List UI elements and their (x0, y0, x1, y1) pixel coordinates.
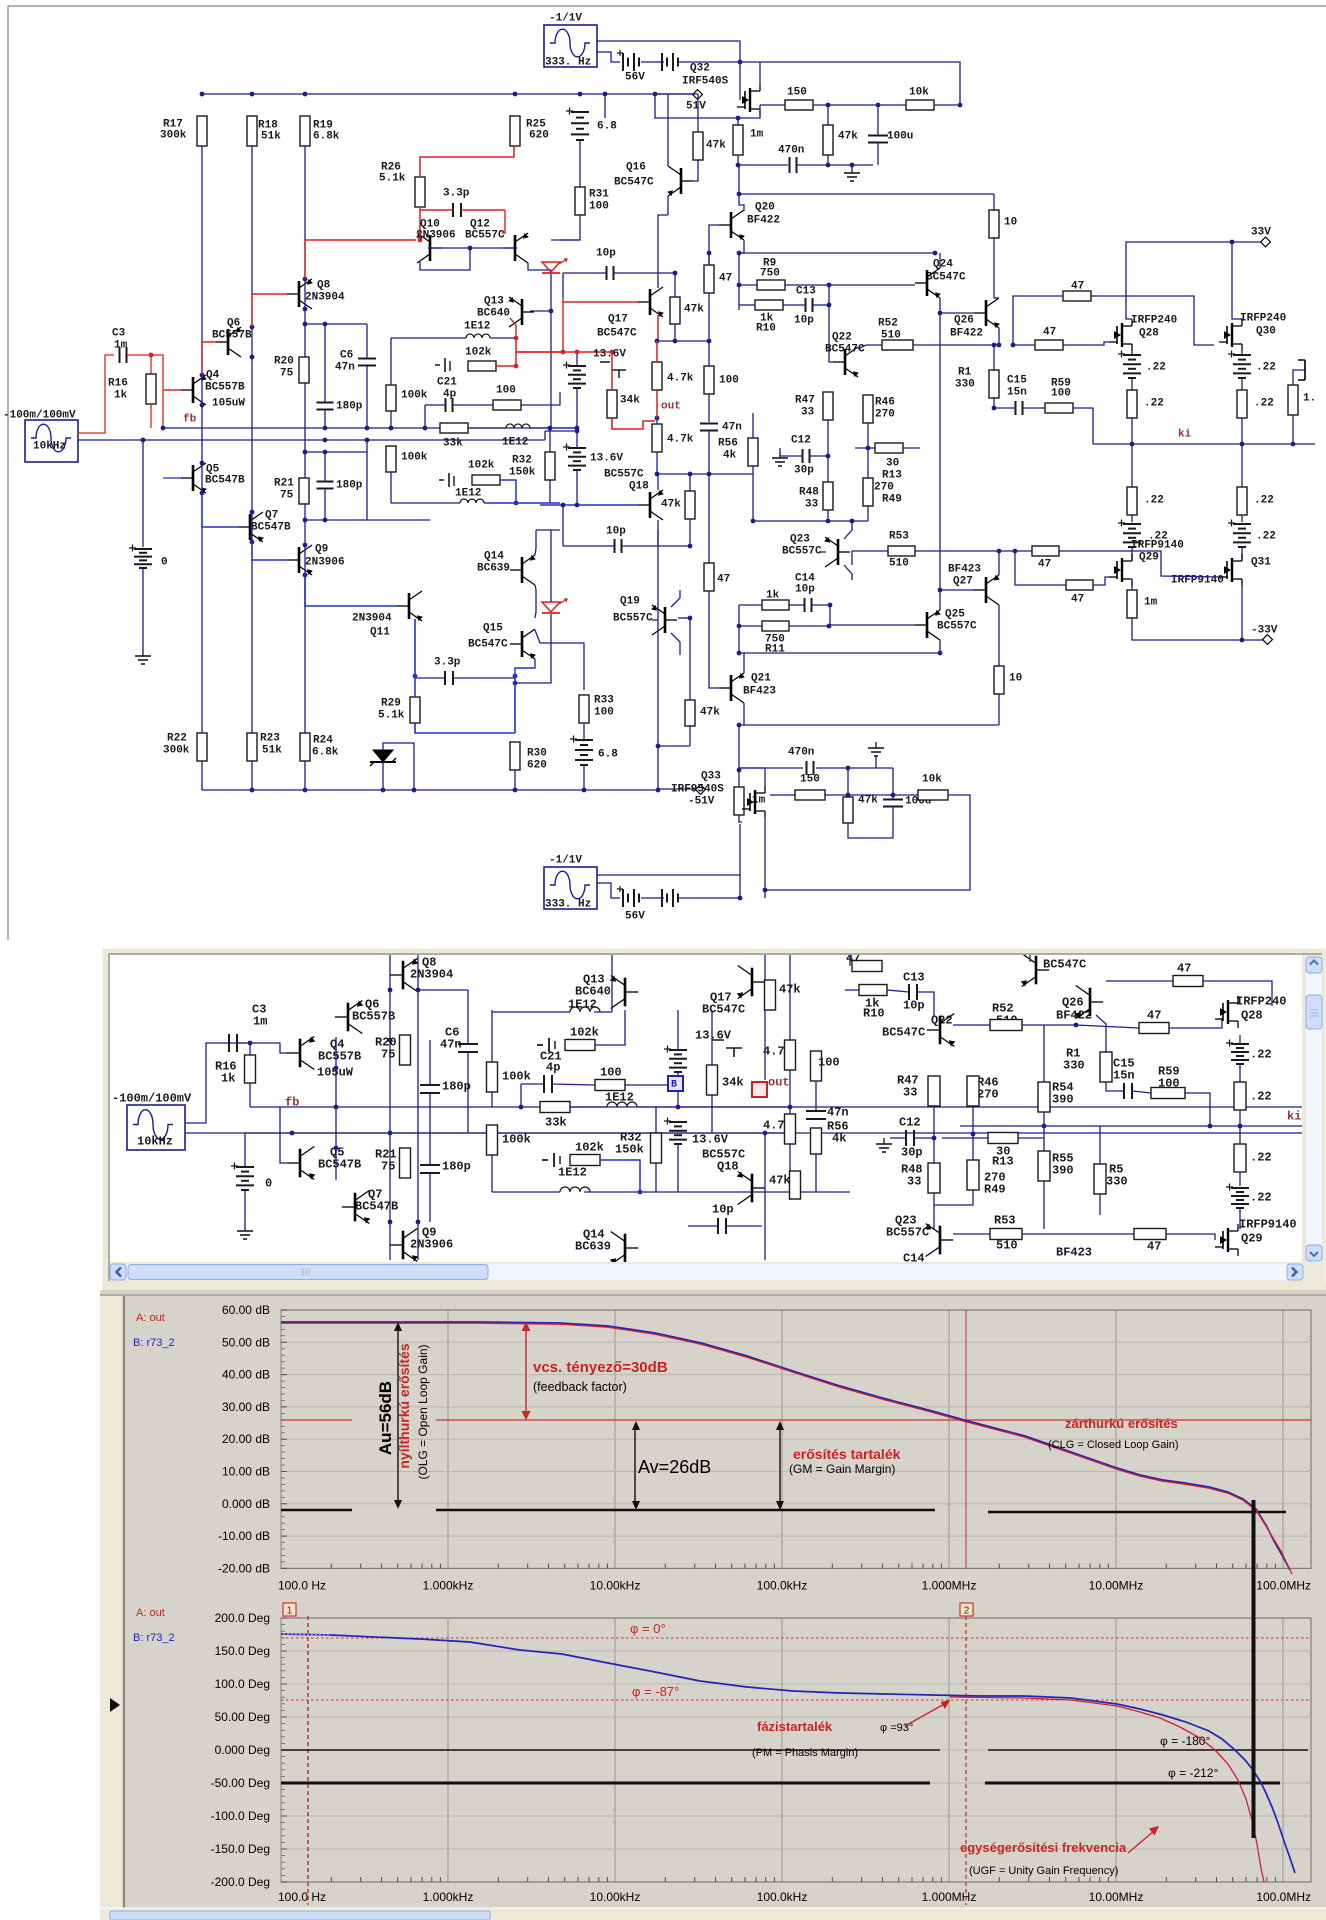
PM red arrow (905, 1703, 946, 1726)
w node q6 d (388, 1220, 393, 1225)
node rail 6.8 (578, 92, 583, 97)
w transistor Q13 (624, 978, 627, 1007)
wire 100mid bot (708, 394, 710, 422)
w battery 0 (236, 1166, 254, 1168)
svg-text:Q7: Q7 (265, 510, 278, 522)
svg-text:Q13: Q13 (484, 296, 504, 308)
wire VG1 lower out (78, 439, 163, 441)
node rail R17 (200, 92, 205, 97)
wire load dn (1292, 415, 1294, 444)
node 848 768 (846, 766, 851, 771)
node fb (161, 426, 166, 431)
node red 420 240 (418, 238, 423, 243)
node 305 c (303, 543, 308, 548)
w wire row 990 (418, 989, 468, 991)
resistor 10k (bot) (918, 790, 948, 800)
UGF red arrow (1128, 1831, 1154, 1853)
svg-text:10kHz: 10kHz (33, 441, 66, 453)
capacitor 180p (upper) (317, 402, 334, 404)
wire 150-10k (813, 104, 906, 106)
resistor 1m (q29) (1127, 590, 1137, 618)
w wire 180p dn b (429, 1173, 431, 1222)
w battery .22 q28 (1231, 1043, 1249, 1045)
wire 180p upper col (324, 324, 326, 402)
w resistor 33k (540, 1102, 570, 1113)
transistor Q4 BC557B (192, 377, 195, 403)
svg-text:R32: R32 (512, 455, 532, 467)
phase hgrid (281, 1650, 1311, 1652)
w resistor R32 150k (651, 1133, 662, 1163)
wire 1m col (737, 118, 739, 125)
0dB black line right (988, 1511, 1286, 1514)
svg-text:0: 0 (265, 1177, 272, 1191)
svg-text:IRFP9140: IRFP9140 (1239, 1218, 1297, 1232)
w wire bus2 (245, 1132, 790, 1134)
svg-text:IRF540S: IRF540S (682, 76, 729, 88)
w transistor Q24 (1035, 956, 1038, 985)
node 383 790 (381, 788, 386, 793)
wire q16 rail (655, 93, 668, 95)
wire 47kmid dn (689, 519, 691, 546)
svg-text:R31: R31 (589, 189, 609, 201)
battery .22 (q28 src) (1123, 354, 1141, 356)
svg-text:R21: R21 (274, 478, 294, 490)
wire 1E12l left (391, 502, 460, 504)
svg-text:390: 390 (1052, 1164, 1074, 1178)
node 999 551 (997, 549, 1002, 554)
w resistor 47 tr (1173, 976, 1203, 987)
node C6 bus (365, 426, 370, 431)
w resistor 34k (707, 1065, 718, 1095)
wire 1m gate (739, 815, 742, 822)
mosfet Q28 IRFP240 (1121, 323, 1123, 347)
node 414 790 (412, 788, 417, 793)
wire ki line (1093, 443, 1315, 445)
node 252 a (250, 325, 255, 330)
node bot 305 (303, 788, 308, 793)
svg-text:IRFP240: IRFP240 (1240, 313, 1286, 325)
w resistor R54 (1038, 1082, 1050, 1112)
wire led2 dn (515, 614, 551, 683)
wire load up (1293, 370, 1305, 385)
svg-text:10k: 10k (909, 87, 929, 99)
wire q24 e dn (939, 298, 941, 313)
svg-text:BC557B: BC557B (318, 1050, 361, 1064)
w capacitor C13 (908, 984, 910, 1000)
w wire batt up (244, 1133, 246, 1167)
svg-text:100.0kHz: 100.0kHz (757, 1578, 808, 1592)
node 829 625 (827, 624, 832, 629)
svg-text:0.000 Deg: 0.000 Deg (215, 1743, 270, 1757)
w wire 30 r (1018, 1137, 1044, 1139)
wire q19 e up (671, 590, 680, 607)
node Q32 gate bus (738, 60, 743, 65)
phase y ticks (281, 1618, 287, 1882)
wire zener dn (382, 762, 384, 790)
svg-text:Q23: Q23 (790, 534, 810, 546)
w wire ki line (960, 1125, 1302, 1127)
svg-text:47: 47 (1177, 962, 1191, 976)
node 1015 551 (1013, 549, 1018, 554)
resistor 4.7k (upper) (652, 362, 662, 390)
w node c21 (519, 1105, 524, 1110)
wire q30 col b (1241, 378, 1243, 390)
svg-text:47k: 47k (700, 707, 720, 719)
wire q14-q15 join (535, 585, 536, 618)
resistor R49 270 (863, 478, 873, 506)
svg-text:270: 270 (874, 482, 894, 494)
wire q33 drain (764, 818, 766, 890)
wire 47g30 left (1013, 344, 1035, 346)
svg-text:BC547C: BC547C (597, 328, 637, 340)
svg-text:10kHz: 10kHz (137, 1135, 173, 1149)
ground (top bias) (851, 167, 853, 173)
wire R56 up (752, 413, 754, 438)
capacitor C3 (119, 347, 121, 363)
svg-text:10p: 10p (596, 248, 616, 260)
svg-text:Q22: Q22 (832, 332, 852, 344)
svg-text:Q26: Q26 (1062, 996, 1084, 1010)
w node 640 1192 (638, 1190, 643, 1195)
node 999 345b (997, 343, 1002, 348)
node 739 725 (737, 723, 742, 728)
wire q29 1m (1131, 584, 1133, 590)
svg-text:6.8k: 6.8k (312, 747, 339, 759)
wire q26 c up (994, 297, 999, 299)
wire Q32 src row (760, 104, 785, 106)
w capacitor 47n r (806, 1110, 826, 1112)
resistor 1m (top) (733, 125, 743, 155)
wire R16 top stub (150, 355, 152, 374)
svg-text:100.0MHz: 100.0MHz (1256, 1578, 1311, 1592)
load bracket (1298, 360, 1305, 380)
wire c12 left (779, 448, 781, 456)
w mosfet Q28 (1227, 1000, 1229, 1024)
wire c21 up (424, 405, 426, 428)
wire VG3 top (597, 883, 620, 898)
node red q13 e (514, 336, 519, 341)
svg-text:3.3p: 3.3p (434, 657, 461, 669)
svg-text:620: 620 (529, 130, 549, 142)
capacitor C13 (805, 298, 807, 312)
node 202 b (200, 403, 205, 408)
wire 551 to Q13 (530, 310, 551, 312)
w resistor 4.7k dn (785, 1114, 796, 1144)
svg-text:30p: 30p (794, 465, 814, 477)
wire q18 c dn (657, 520, 659, 546)
node 739 626 (737, 624, 742, 629)
resistor R9 750 (757, 280, 785, 290)
w transistor Q8 (402, 961, 405, 990)
w resistor 47 mr (1139, 1023, 1169, 1034)
w resistor R49 (967, 1160, 979, 1190)
hscroll thumb (128, 1265, 488, 1280)
node 33k left (423, 426, 428, 431)
wire 100k dn (390, 411, 392, 428)
wire c21 left (425, 404, 445, 406)
svg-text:R13: R13 (882, 470, 902, 482)
w wire r54 (1043, 1025, 1045, 1082)
w marker B (668, 1076, 683, 1091)
svg-text:BC557C: BC557C (886, 1226, 929, 1240)
svg-text:Q9: Q9 (315, 544, 328, 556)
svg-text:47: 47 (719, 273, 732, 285)
capacitor 10p (q18) (614, 539, 616, 553)
resistor R16 (146, 374, 156, 404)
w node q6 a (388, 988, 393, 993)
capacitor stub upper (435, 358, 445, 372)
node 515 683 (513, 681, 518, 686)
wire 1E12l right (484, 502, 560, 504)
wire VG2 to 56V battery (597, 52, 620, 62)
svg-text:IRF9540S: IRF9540S (671, 784, 724, 796)
plot panel background (100, 1290, 1326, 1908)
svg-text:BF423: BF423 (948, 564, 981, 576)
resistor R21 (299, 478, 309, 504)
node 830 605 (828, 603, 833, 608)
w node 790 1107 (788, 1105, 793, 1110)
svg-text:Q6: Q6 (227, 318, 240, 330)
svg-text:15n: 15n (1113, 1069, 1135, 1083)
resistor R48 33 (823, 482, 833, 510)
svg-text:47: 47 (1038, 559, 1051, 571)
svg-text:1m: 1m (253, 1015, 267, 1029)
resistor 1m (bot) (734, 787, 744, 815)
wire row 505 base (540, 504, 638, 506)
svg-text:(PM = Phasis Margin): (PM = Phasis Margin) (752, 1747, 858, 1759)
wire 47g28 right (1091, 296, 1214, 345)
svg-text:5.1k: 5.1k (379, 173, 406, 185)
wire 829 col (828, 285, 830, 355)
svg-text:1k: 1k (221, 1072, 235, 1086)
svg-text:nyílthurkú erősítés: nyílthurkú erősítés (396, 1343, 412, 1468)
svg-text:1E12: 1E12 (464, 321, 490, 333)
wire 13.6l top (576, 431, 578, 448)
w wire c13 r (917, 992, 934, 1017)
svg-text:33k: 33k (443, 438, 463, 450)
svg-text:10p: 10p (712, 1203, 734, 1217)
node out (655, 416, 660, 421)
resistor 100k (upper) (386, 385, 396, 411)
resistor R59 100 (1045, 403, 1073, 413)
svg-text:BC557B: BC557B (352, 1010, 395, 1024)
node 551 311 (549, 309, 554, 314)
wire 10p2 rise (562, 505, 564, 546)
w wire c12 (890, 1137, 906, 1139)
wire base drop (420, 248, 470, 270)
svg-text:.22: .22 (1250, 1048, 1272, 1062)
resistor .22 (q28) (1127, 390, 1137, 418)
wire 68 dn (583, 765, 585, 790)
wire VG1 upper out (78, 355, 114, 433)
svg-text:100: 100 (719, 375, 739, 387)
wire 47k col (827, 105, 829, 125)
node 940 313 (938, 311, 943, 316)
wire 100u bottom (877, 143, 879, 165)
transistor Q16 BC547C (680, 168, 683, 194)
node 994 345 (992, 343, 997, 348)
capacitor C15 15n (1015, 401, 1017, 415)
wire 739 col (738, 165, 740, 194)
node 994 408 (992, 406, 997, 411)
hscroll right button (1287, 1264, 1303, 1280)
svg-text:47k: 47k (769, 1174, 791, 1188)
w resistor 4.7k up (785, 1040, 796, 1070)
w wire c6 dn (467, 1052, 469, 1133)
node rail x605 (603, 92, 608, 97)
w wire q8 col (417, 955, 419, 1260)
w wire 34k dn (711, 1095, 713, 1133)
svg-text:4.7k: 4.7k (667, 373, 694, 385)
wire chain link (678, 897, 740, 899)
resistor R20 (299, 357, 309, 383)
wire C3 to R16 node (127, 354, 151, 356)
svg-text:1E12: 1E12 (568, 998, 597, 1012)
wire 746 row (658, 745, 690, 747)
svg-text:33: 33 (805, 499, 819, 511)
svg-text:2N3906: 2N3906 (416, 230, 456, 242)
battery B2 small (661, 53, 663, 71)
node 202 c (200, 461, 205, 466)
capacitor C14 10p (804, 598, 806, 612)
w marker out (752, 1082, 767, 1097)
node 305 a (303, 277, 308, 282)
wire blue q7 down (252, 542, 287, 560)
w wire batt dn (244, 1190, 246, 1225)
svg-text:A: out: A: out (136, 1607, 165, 1619)
svg-text:BC547C: BC547C (1043, 958, 1086, 972)
w resistor R48 (928, 1163, 940, 1193)
wire C6 top (366, 324, 368, 358)
svg-text:out: out (768, 1076, 790, 1090)
wire q15 c right (535, 630, 584, 690)
svg-text:47n: 47n (722, 422, 742, 434)
wire red 3.3p right (461, 209, 505, 211)
node rail R19 (303, 92, 308, 97)
svg-text:150: 150 (787, 87, 807, 99)
wire 100k up (390, 338, 392, 385)
wire fb red link (151, 355, 163, 428)
node ki b (1240, 442, 1245, 447)
w resistor R55 (1038, 1151, 1050, 1181)
battery 13.6V lower (568, 447, 586, 449)
plot panel left margin (100, 1296, 122, 1908)
wire 100u stub (892, 768, 894, 799)
svg-text:10p: 10p (903, 999, 925, 1013)
svg-text:IRFP240: IRFP240 (1236, 995, 1286, 1009)
svg-text:-20.00 dB: -20.00 dB (218, 1561, 270, 1575)
svg-text:47k: 47k (779, 983, 801, 997)
wire 47kq17 dn (674, 324, 676, 341)
svg-text:R46: R46 (875, 397, 895, 409)
wire mid col x252 (251, 146, 253, 733)
phi=0 dotted line (281, 1637, 1311, 1639)
wire VG2 top to Q32 gate bus (597, 41, 740, 62)
resistor 47 (g31) (1066, 580, 1093, 590)
w wire r55 dn (1043, 1181, 1045, 1229)
svg-text:-150.0 Deg: -150.0 Deg (211, 1842, 270, 1856)
battery .22 (q30 src) (1233, 354, 1251, 356)
node 100k bus (389, 426, 394, 431)
w inductor 1E12 (607, 1102, 637, 1107)
svg-text:.22: .22 (1256, 362, 1276, 374)
phi=-87 dotted line (281, 1699, 1311, 1701)
wire red Q4-Q6 (163, 389, 181, 391)
svg-text:10p: 10p (794, 315, 814, 327)
zener D3 (373, 750, 393, 762)
wire 739 colb (738, 253, 740, 310)
Au arrow (397, 1329, 399, 1503)
diamond 51V (693, 90, 703, 100)
svg-text:333. Hz: 333. Hz (545, 899, 591, 911)
w resistor 100 (595, 1080, 625, 1091)
resistor 47 (mid) (704, 563, 714, 591)
node mid 105 (826, 103, 831, 108)
svg-text:2N3906: 2N3906 (410, 1238, 453, 1252)
svg-text:750: 750 (760, 268, 780, 280)
resistor 34k (607, 390, 617, 418)
capacitor 47n (mid) (700, 423, 718, 425)
svg-text:Q14: Q14 (484, 551, 504, 563)
w node q6 c (388, 1131, 393, 1136)
svg-text:-33V: -33V (1251, 625, 1278, 637)
red diode D1 (upper) (542, 262, 560, 272)
wire 33V to q30 (1232, 242, 1242, 319)
w ground input (244, 1225, 246, 1231)
svg-text:C21: C21 (437, 377, 457, 389)
svg-text:2N3904: 2N3904 (305, 292, 345, 304)
phase minor ticks (331, 1877, 1275, 1882)
svg-text:100u: 100u (887, 131, 913, 143)
w wire 47br r (1166, 1234, 1215, 1240)
w node ki a (1042, 1124, 1047, 1129)
wire main bus y440 (163, 439, 545, 441)
svg-text:33k: 33k (545, 1116, 567, 1130)
svg-text:47: 47 (1071, 594, 1084, 606)
svg-text:BC557C: BC557C (782, 546, 822, 558)
svg-text:Q27: Q27 (953, 576, 973, 588)
wire q31 col b (1241, 547, 1243, 560)
wire 1E12 left (391, 337, 466, 339)
wire q30 col c (1241, 418, 1243, 487)
w battery 13.6V dn (669, 1121, 687, 1123)
node rail R25 (513, 92, 518, 97)
svg-text:Q28: Q28 (1139, 328, 1159, 340)
w wire q4q5 col (335, 1037, 337, 1180)
wire red row 352 (516, 351, 612, 353)
w resistor .22 q29 (1234, 1144, 1246, 1172)
wire R32 dn (549, 480, 551, 503)
w wire 102k dn r (600, 1160, 640, 1192)
svg-text:BC547C: BC547C (882, 1026, 925, 1040)
node 709 253 (707, 251, 712, 256)
mosfet Q33 IRF9540S (754, 790, 756, 814)
w wire c21-100 (552, 1084, 595, 1085)
svg-text:30: 30 (886, 458, 899, 470)
svg-text:ki: ki (1178, 429, 1192, 441)
wire 100u top (877, 105, 879, 135)
svg-text:47: 47 (1071, 281, 1084, 293)
resistor 750 R11 (762, 621, 789, 631)
svg-text:30p: 30p (901, 1146, 923, 1160)
wire row 725 (744, 724, 999, 726)
w wire r52 r (1022, 1024, 1076, 1026)
node 829 305 (827, 303, 832, 308)
wire 34k top red (611, 352, 613, 390)
svg-text:40.00 dB: 40.00 dB (222, 1368, 270, 1382)
svg-text:(CLG = Closed Loop Gain): (CLG = Closed Loop Gain) (1048, 1439, 1179, 1451)
node 324 b (323, 322, 328, 327)
